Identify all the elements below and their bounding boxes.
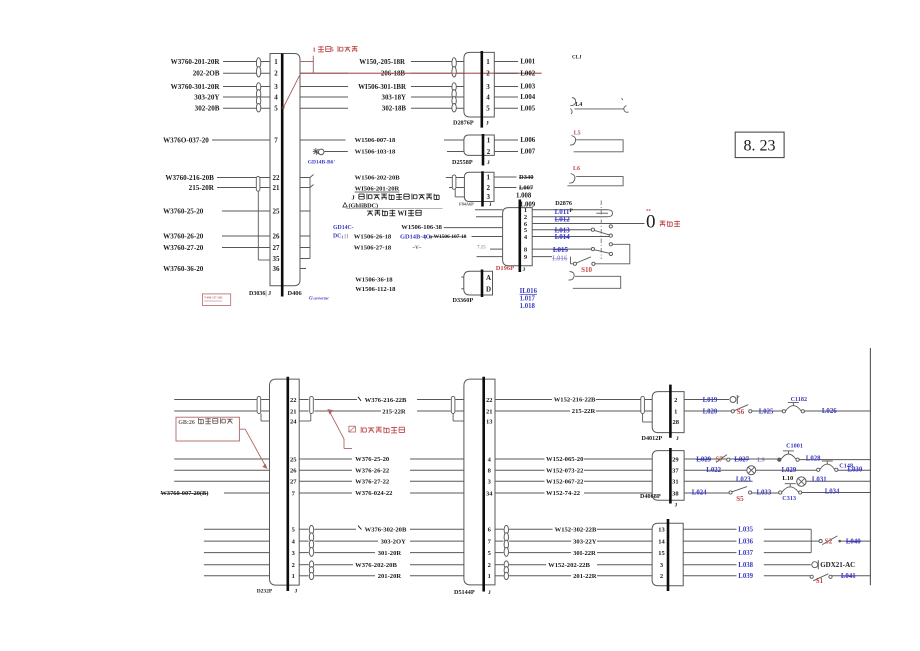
svg-text:303-20Y: 303-20Y [194, 93, 219, 101]
svg-text:1: 1 [487, 136, 491, 144]
svg-text:14: 14 [658, 539, 665, 546]
svg-text:25: 25 [290, 456, 297, 463]
svg-text:D4068P: D4068P [640, 493, 661, 500]
svg-text:W1506-26-18: W1506-26-18 [354, 233, 392, 240]
svg-text:21: 21 [290, 408, 297, 415]
svg-text:L016: L016 [552, 255, 568, 263]
svg-text:1: 1 [274, 58, 278, 66]
svg-text:L006: L006 [520, 137, 535, 144]
svg-text:W3760-201-20R: W3760-201-20R [171, 58, 221, 66]
svg-text:1: 1 [487, 173, 491, 181]
svg-text:L040: L040 [846, 538, 861, 545]
svg-text:D3036| J: D3036| J [249, 291, 271, 297]
svg-text:J: J [487, 160, 490, 166]
svg-text:C313: C313 [782, 495, 796, 502]
svg-text:2: 2 [487, 148, 491, 156]
svg-text:W152-065-20: W152-065-20 [546, 456, 584, 463]
svg-text:30I-22R: 30I-22R [573, 550, 596, 557]
svg-text:24: 24 [290, 418, 297, 425]
svg-text:D232P: D232P [257, 589, 273, 595]
svg-text:WI506-301-1BR: WI506-301-1BR [358, 84, 407, 91]
svg-text:1.018: 1.018 [520, 303, 536, 310]
svg-text:W3760-301-20R: W3760-301-20R [171, 83, 221, 91]
svg-text:13: 13 [658, 527, 665, 534]
svg-text:3: 3 [274, 83, 278, 91]
svg-text:W3760-26-20: W3760-26-20 [163, 232, 204, 240]
svg-text:1: 1 [342, 235, 344, 240]
svg-text:W3760-36-20: W3760-36-20 [163, 265, 204, 273]
svg-text:W376-216-22B: W376-216-22B [365, 397, 407, 404]
svg-text:n-W1506-107-18: n-W1506-107-18 [429, 234, 467, 240]
svg-text:L012: L012 [555, 216, 571, 224]
svg-text:34: 34 [486, 490, 493, 497]
svg-text:L019: L019 [703, 397, 718, 404]
svg-text:L030: L030 [848, 467, 863, 474]
svg-text:W3760-007-20(B): W3760-007-20(B) [161, 490, 209, 497]
svg-text:J: J [486, 121, 489, 127]
svg-text:DC: DC [333, 234, 341, 240]
svg-text:W1506-007-18: W1506-007-18 [355, 137, 396, 144]
svg-text:W152-073-22: W152-073-22 [546, 467, 584, 474]
svg-text:L024: L024 [692, 490, 707, 497]
svg-text:GD14B-4C,: GD14B-4C, [400, 233, 432, 240]
svg-text:W376O-037-20: W376O-037-20 [163, 136, 209, 144]
svg-text:1: 1 [313, 47, 316, 54]
svg-text:D3360P: D3360P [453, 297, 474, 304]
svg-text:W152-067-22: W152-067-22 [546, 478, 584, 485]
svg-text:W376-26-22: W376-26-22 [355, 467, 390, 474]
svg-text:W376-202-20B: W376-202-20B [355, 562, 397, 569]
svg-text:22: 22 [273, 174, 281, 182]
svg-text:36: 36 [273, 265, 281, 273]
svg-text:**: ** [646, 210, 652, 215]
svg-text:CLJ: CLJ [572, 55, 582, 60]
svg-text:J: J [675, 503, 678, 509]
svg-text:201-22R: 201-22R [573, 573, 597, 580]
svg-text:2: 2 [486, 70, 490, 78]
svg-text:15: 15 [658, 550, 665, 557]
svg-text:L039: L039 [738, 573, 753, 580]
svg-text:1: 1 [674, 408, 677, 415]
svg-text:22: 22 [486, 397, 493, 404]
svg-text:W152-216-22B: W152-216-22B [554, 397, 596, 404]
svg-text:GD14C-: GD14C- [333, 225, 354, 231]
svg-text:D406: D406 [288, 290, 303, 297]
svg-text:7: 7 [274, 136, 278, 144]
svg-text:215-22R: 215-22R [572, 408, 596, 415]
svg-text:35: 35 [273, 255, 281, 263]
svg-text:L029: L029 [696, 456, 711, 463]
svg-text:W376-27-22: W376-27-22 [355, 478, 390, 485]
svg-text:27: 27 [273, 244, 281, 252]
svg-text:25: 25 [273, 207, 281, 215]
svg-text:215-22R: 215-22R [382, 408, 406, 415]
svg-text:W150,-205-18R: W150,-205-18R [359, 59, 406, 66]
svg-text:1: 1 [488, 573, 491, 580]
svg-text:1: 1 [486, 58, 490, 66]
svg-text:5: 5 [274, 105, 278, 113]
svg-text:GD14B-B6: GD14B-B6 [308, 159, 334, 165]
svg-text:~V~: ~V~ [413, 246, 422, 251]
svg-text:L022: L022 [706, 467, 721, 474]
svg-text:L4: L4 [575, 102, 582, 108]
svg-text:L10: L10 [782, 475, 793, 482]
svg-text:W152-202-22B: W152-202-22B [548, 562, 590, 569]
svg-text:W1506-106-38: W1506-106-38 [401, 224, 442, 231]
svg-text:G: G [309, 296, 313, 302]
svg-text:4: 4 [274, 93, 278, 101]
svg-text:L007: L007 [519, 185, 534, 192]
svg-text:27: 27 [290, 479, 297, 486]
svg-text:L007: L007 [520, 149, 535, 156]
svg-text:1.008: 1.008 [516, 193, 532, 200]
svg-text:L034: L034 [825, 489, 840, 496]
svg-text:13: 13 [486, 418, 493, 425]
svg-text:L5: L5 [574, 131, 581, 137]
svg-text:GDX21-AC: GDX21-AC [820, 561, 855, 569]
svg-text:usvwcmc: usvwcmc [314, 296, 330, 301]
svg-text:A: A [486, 274, 491, 282]
svg-text:S10: S10 [581, 266, 592, 274]
svg-text:L031: L031 [812, 477, 827, 484]
svg-text:J: J [295, 589, 298, 595]
svg-text:D2876P: D2876P [453, 120, 474, 127]
svg-text:C1001: C1001 [786, 443, 803, 450]
svg-text:W376-302-20B: W376-302-20B [365, 527, 407, 534]
svg-text:| |: | | [345, 234, 349, 240]
svg-text:D: D [486, 286, 491, 294]
svg-text:302-18B: 302-18B [382, 106, 407, 113]
svg-text:W3760-27-20: W3760-27-20 [163, 244, 204, 252]
svg-text:L033: L033 [757, 490, 772, 497]
svg-text:WI: WI [398, 211, 408, 218]
svg-text:WI506-201-20R: WI506-201-20R [355, 186, 400, 193]
svg-text:IL016: IL016 [520, 288, 538, 295]
svg-text:C1182: C1182 [791, 396, 808, 403]
svg-text:302-20B: 302-20B [195, 105, 220, 113]
svg-text:L037: L037 [738, 550, 753, 557]
svg-text:L035: L035 [738, 527, 753, 534]
svg-text:7.15: 7.15 [477, 245, 486, 250]
svg-text:W1506-112-18: W1506-112-18 [355, 286, 396, 293]
svg-text:215-20R: 215-20R [189, 184, 215, 192]
svg-text:L026: L026 [822, 408, 837, 415]
svg-text:22: 22 [290, 397, 297, 404]
svg-text:W1506-36-18: W1506-36-18 [355, 277, 393, 284]
svg-text:303-22Y: 303-22Y [573, 538, 597, 545]
svg-text:1: 1 [292, 573, 295, 580]
svg-text:28: 28 [673, 419, 680, 426]
svg-text:37: 37 [672, 468, 679, 475]
svg-text:L041: L041 [841, 573, 856, 580]
svg-text:S5: S5 [736, 495, 744, 503]
svg-text:5: 5 [486, 105, 490, 113]
svg-text:21: 21 [486, 408, 493, 415]
svg-text:D2558P: D2558P [452, 159, 473, 166]
svg-text:S1: S1 [816, 577, 824, 585]
svg-text:L9: L9 [757, 456, 765, 463]
svg-text:L027: L027 [734, 456, 749, 463]
svg-text:S2: S2 [825, 538, 833, 546]
svg-text:W1506-103-18: W1506-103-18 [355, 149, 396, 156]
svg-text:3: 3 [487, 193, 491, 201]
svg-text:2: 2 [488, 562, 491, 569]
svg-text:301-20R: 301-20R [378, 550, 402, 557]
svg-text:206-18B: 206-18B [381, 71, 406, 78]
svg-text:D340: D340 [519, 174, 533, 181]
svg-text:L014: L014 [555, 233, 571, 241]
svg-text:L002: L002 [520, 70, 535, 77]
svg-text:L005: L005 [520, 105, 535, 112]
svg-text:W152-74-22: W152-74-22 [546, 490, 581, 497]
svg-text:L015: L015 [553, 246, 569, 254]
svg-text:W376-024-22: W376-024-22 [355, 490, 393, 497]
svg-text:3: 3 [486, 83, 490, 91]
svg-text:J: J [523, 267, 526, 273]
svg-text:GB:26: GB:26 [178, 420, 195, 426]
svg-text:L003: L003 [520, 84, 535, 91]
svg-text:2: 2 [660, 573, 663, 580]
svg-text:21: 21 [273, 184, 281, 192]
svg-text:201-20R: 201-20R [378, 573, 402, 580]
svg-text:L020: L020 [703, 408, 718, 415]
svg-text:1.017: 1.017 [520, 296, 536, 303]
svg-text:2: 2 [674, 397, 677, 404]
svg-text:0: 0 [646, 212, 656, 233]
svg-text:L028: L028 [806, 455, 821, 462]
svg-text:29: 29 [672, 456, 679, 463]
svg-text:L004: L004 [520, 94, 535, 101]
svg-text:J: J [488, 590, 491, 596]
svg-text:303-2OY: 303-2OY [381, 539, 407, 546]
svg-text:|: | [425, 235, 426, 241]
svg-text:31: 31 [672, 479, 679, 486]
svg-text:W1506-202-20B: W1506-202-20B [355, 175, 401, 182]
svg-text:L001: L001 [520, 59, 535, 66]
svg-text:8. 23: 8. 23 [744, 138, 776, 155]
svg-text:L029: L029 [782, 467, 797, 474]
svg-text:2: 2 [487, 184, 491, 192]
svg-text:W152-302-22B: W152-302-22B [555, 526, 597, 533]
svg-text:F84A6P: F84A6P [459, 201, 474, 206]
svg-text:L036: L036 [738, 538, 753, 545]
svg-text:L025: L025 [759, 408, 774, 415]
svg-text:W3760-216-20B: W3760-216-20B [165, 174, 214, 182]
svg-text:26: 26 [290, 468, 297, 475]
svg-text:D4012P: D4012P [642, 435, 663, 442]
svg-text:4: 4 [486, 93, 490, 101]
svg-text:26: 26 [273, 232, 281, 240]
svg-text:W3760-25-20: W3760-25-20 [163, 207, 204, 215]
svg-text:202-2OB: 202-2OB [193, 70, 220, 78]
svg-text:D196P: D196P [496, 265, 514, 272]
svg-text:T-486 317 23K: T-486 317 23K [204, 295, 223, 299]
svg-text:L6: L6 [573, 166, 580, 172]
svg-text:38: 38 [672, 490, 679, 497]
svg-text:W1506-27-18: W1506-27-18 [354, 245, 392, 252]
svg-text:D2876: D2876 [555, 200, 572, 207]
svg-text:D5144P: D5144P [454, 589, 475, 596]
svg-text:303-18Y: 303-18Y [382, 94, 407, 101]
svg-text:W376-25-20: W376-25-20 [355, 456, 390, 463]
svg-text:2: 2 [292, 562, 295, 569]
svg-text:L023: L023 [736, 477, 751, 484]
svg-text:J: J [676, 436, 679, 442]
svg-text:S6: S6 [737, 408, 745, 416]
svg-text:2: 2 [274, 70, 278, 78]
svg-text:L038: L038 [738, 562, 753, 569]
